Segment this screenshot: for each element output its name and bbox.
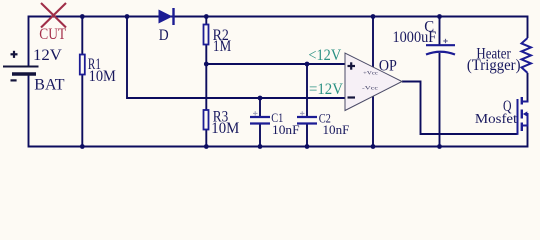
svg-text:<12V: <12V: [308, 47, 342, 64]
capacitor C1 polarity: [253, 111, 258, 115]
svg-text:10M: 10M: [211, 120, 239, 137]
resistor R1: [80, 55, 85, 75]
wire C2 branch lower: [306, 124, 308, 147]
node R3-bottom: [204, 144, 209, 149]
wire op-amp output to mosfet gate: [402, 82, 518, 135]
capacitor C1: [250, 117, 270, 124]
svg-text:-Vcc: -Vcc: [362, 86, 379, 92]
resistor R2: [204, 25, 209, 45]
svg-text:Mosfet: Mosfet: [475, 111, 518, 126]
svg-text:CUT: CUT: [39, 26, 66, 43]
node C2-bottom: [305, 144, 310, 149]
wire heater to mosfet drain: [527, 73, 529, 102]
node R2-top: [204, 14, 209, 19]
wire left edge lower (battery to bottom rail): [28, 74, 30, 148]
node C1-bottom: [258, 144, 263, 149]
svg-text:1000uF: 1000uF: [393, 29, 437, 46]
wire C2 branch upper: [306, 64, 308, 117]
wire R3 bottom: [205, 130, 207, 147]
wire non-inverting input: [206, 63, 345, 65]
wire top rail: [29, 16, 529, 18]
wire capacitor C branch upper: [439, 17, 441, 46]
svg-text:+Vcc: +Vcc: [363, 71, 379, 77]
svg-text:10nF: 10nF: [323, 122, 350, 137]
capacitor C2: [297, 117, 317, 124]
capacitor C (electrolytic) plates: [426, 45, 455, 54]
node C-bottom: [437, 144, 442, 149]
diode D: [159, 8, 174, 25]
node C2-plus-input: [305, 62, 310, 67]
wire C1 branch lower: [259, 124, 261, 147]
capacitor C polarity: [443, 39, 447, 43]
wire left edge upper (battery to top rail): [28, 16, 30, 67]
transistor Q body arrow head: [523, 111, 528, 116]
wire R1 branch top: [81, 17, 83, 55]
wire op-amp -Vcc supply: [372, 96, 374, 146]
svg-text:10M: 10M: [89, 68, 116, 85]
heater resistor zigzag: [522, 38, 532, 73]
op-amp U1 triangle: [345, 53, 402, 111]
wire right edge upper (top rail to heater): [527, 16, 529, 39]
wire R2 bottom to node: [205, 45, 207, 111]
resistor R3: [204, 110, 209, 130]
cut mark X: [41, 3, 66, 28]
node C1-minus-input: [258, 96, 263, 101]
svg-text:BAT: BAT: [34, 77, 65, 94]
wire capacitor C branch lower: [439, 53, 441, 147]
op-amp minus input sign: [348, 96, 356, 98]
svg-text:D: D: [159, 27, 169, 44]
node C-top: [437, 14, 442, 19]
wire R2 top: [205, 17, 207, 25]
node R1-top: [80, 14, 85, 19]
svg-text:12V: 12V: [33, 47, 63, 64]
wire mosfet source to bottom rail: [527, 126, 529, 148]
svg-text:(Trigger): (Trigger): [467, 57, 521, 74]
wire C1 branch upper: [259, 98, 261, 117]
node inv-branch-top: [125, 14, 130, 19]
node R2-R3 divider: [204, 62, 209, 67]
wire bottom rail: [29, 146, 528, 148]
node Vcc-top: [371, 14, 376, 19]
node Vee-bottom: [371, 144, 376, 149]
svg-text:=12V: =12V: [309, 81, 344, 98]
wire op-amp +Vcc supply: [372, 17, 374, 68]
svg-text:OP: OP: [379, 57, 397, 74]
capacitor C2 polarity: [300, 111, 305, 115]
transistor Q mosfet: [518, 97, 529, 135]
op-amp plus input sign: [348, 62, 356, 69]
svg-text:1M: 1M: [213, 38, 231, 55]
node R1-bottom: [80, 144, 85, 149]
battery BAT plates: [3, 67, 39, 75]
wire inverting-input branch: [127, 17, 345, 99]
svg-text:10nF: 10nF: [272, 122, 300, 137]
battery polarity +: [11, 51, 18, 58]
battery polarity -: [11, 79, 17, 81]
wire R1 branch bottom: [81, 75, 83, 147]
